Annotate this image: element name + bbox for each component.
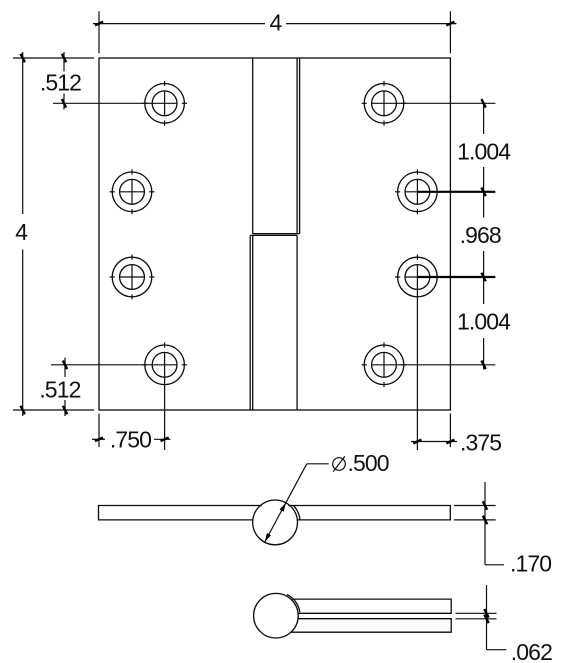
knuckle divider upper line xyxy=(253,233,300,235)
hole L4 xyxy=(51,342,187,450)
dimension 4 (left height): ticks xyxy=(21,54,25,63)
dimension .375: ticks xyxy=(413,440,421,444)
folded view upper leaf xyxy=(292,599,451,613)
dimension .512 (top): ticks xyxy=(62,54,66,63)
hole L1 xyxy=(53,81,187,126)
folded view lower leaf xyxy=(291,619,451,633)
svg-text:.170: .170 xyxy=(510,551,551,577)
hinge plate outline (front view) xyxy=(99,58,450,410)
lower knuckle left double edge xyxy=(249,235,251,410)
dimension .170: extension lines xyxy=(454,505,496,507)
svg-text:.512: .512 xyxy=(40,69,81,95)
side view (open hinge) left leaf bar xyxy=(99,506,262,520)
dimension 4 (top width): ticks xyxy=(95,22,103,26)
dimension .512 (bottom): dimension line xyxy=(64,358,66,377)
dimension .750: extension line xyxy=(98,414,100,448)
hole L3 xyxy=(110,255,155,300)
dimension .750: ticks xyxy=(95,437,103,441)
dimension .170: ticks xyxy=(483,501,487,510)
dimension .375: extension line xyxy=(449,414,451,448)
dimension .512 (top): dimension line xyxy=(63,52,65,72)
side view barrel circle xyxy=(253,500,298,545)
upper knuckle left edge xyxy=(252,58,254,234)
diameter symbol xyxy=(333,456,346,471)
knuckle divider lower line xyxy=(250,234,297,236)
dimension 4 (top width): dimension line xyxy=(93,23,265,25)
diameter arrowhead lower xyxy=(265,533,271,542)
svg-text:4: 4 xyxy=(269,9,282,35)
upper knuckle right double edge xyxy=(296,58,298,234)
dimension .062: extension lines xyxy=(456,612,497,614)
svg-text:.062: .062 xyxy=(511,639,552,663)
dimension .062: dimension line xyxy=(486,585,488,650)
svg-text:.500: .500 xyxy=(348,450,389,476)
dimension 4 (top width): extension lines xyxy=(98,11,100,53)
hole L2 xyxy=(110,169,155,214)
diameter leader line xyxy=(265,464,307,542)
side view knuckle arc (second leaf edge) xyxy=(294,506,301,520)
dimension 4 (left height): dimension line xyxy=(22,52,24,214)
hole R3 xyxy=(395,255,495,450)
svg-text:1.004: 1.004 xyxy=(457,138,511,164)
svg-text:.375: .375 xyxy=(460,430,501,456)
dimension .512 (bottom): ticks xyxy=(63,361,67,370)
dimension .170: dimension line xyxy=(484,482,486,565)
svg-text:.512: .512 xyxy=(39,376,80,402)
side view right leaf bar xyxy=(289,506,451,520)
svg-text:1.004: 1.004 xyxy=(457,309,511,335)
folded view barrel circle xyxy=(254,593,299,638)
svg-text:.750: .750 xyxy=(110,426,151,452)
diameter arrowhead upper xyxy=(280,503,286,512)
dimension .750: dimension line xyxy=(92,438,105,440)
dimension 4 (left height): extension lines xyxy=(13,57,94,59)
lower knuckle right edge xyxy=(296,235,298,410)
right vertical dimension line (1.004/.968/1.004) xyxy=(483,103,485,134)
folded view knuckle arc xyxy=(287,594,300,612)
hole R4 xyxy=(362,342,496,387)
hole R2 xyxy=(395,169,495,214)
dimension .375: dimension line xyxy=(411,441,457,443)
right dimension ticks xyxy=(481,99,485,108)
svg-text:.968: .968 xyxy=(460,222,501,248)
dimension .062: ticks xyxy=(484,609,488,618)
svg-text:4: 4 xyxy=(15,219,28,245)
hole R1 xyxy=(362,81,496,126)
